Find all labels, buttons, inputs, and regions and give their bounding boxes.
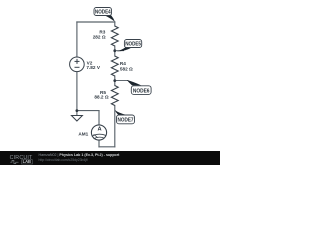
svg-text:NODE7: NODE7 xyxy=(118,118,134,124)
svg-text:NODE4: NODE4 xyxy=(95,10,111,16)
svg-text:582 Ω: 582 Ω xyxy=(120,66,133,71)
svg-text:HamzaN02 | Physics Lab 1 (Ex.3: HamzaN02 | Physics Lab 1 (Ex.3, Pt.2) - … xyxy=(39,153,121,157)
svg-text:88.2 Ω: 88.2 Ω xyxy=(94,95,108,100)
svg-text:LAB: LAB xyxy=(23,159,31,164)
svg-text:http://circuitlab.com/c25dy23b: http://circuitlab.com/c25dy23b4jf/ xyxy=(39,158,88,162)
svg-text:NODE6: NODE6 xyxy=(133,88,150,94)
svg-text:7.82 V: 7.82 V xyxy=(86,65,100,70)
svg-text:NODE5: NODE5 xyxy=(125,42,141,48)
svg-text:R4: R4 xyxy=(120,61,126,66)
svg-text:A: A xyxy=(98,127,102,133)
svg-text:282 Ω: 282 Ω xyxy=(93,34,106,39)
svg-text:AM1: AM1 xyxy=(78,132,88,137)
